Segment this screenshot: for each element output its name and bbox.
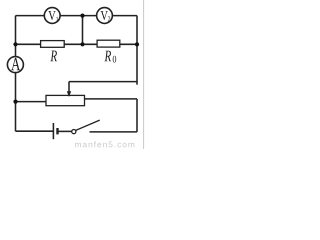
watermark manfen5.com <box>75 143 81 148</box>
junction node middle-second-rail <box>80 42 84 46</box>
resistor R <box>41 41 65 48</box>
page border faint line <box>143 0 145 149</box>
wire right vertical lower <box>136 99 138 132</box>
junction node rheostat-left <box>13 100 17 104</box>
resistor R0 <box>97 40 120 47</box>
label R <box>50 51 57 62</box>
wire bottom rail right <box>90 131 138 133</box>
rheostat (slide) box <box>46 95 85 105</box>
ammeter A <box>7 57 23 73</box>
junction node middle-top <box>80 14 84 18</box>
wire rheostat left <box>16 101 47 103</box>
wire bottom rail left <box>16 130 54 132</box>
wire left vertical <box>15 16 17 132</box>
battery cell <box>53 123 57 139</box>
label R0 <box>104 51 116 63</box>
switch S <box>72 120 100 134</box>
wire rheostat right <box>84 98 137 100</box>
wire right vertical upper <box>136 16 138 85</box>
rheostat wiper arrow <box>67 82 71 97</box>
junction node left-second-rail <box>13 42 17 46</box>
voltmeter V2 <box>97 8 113 24</box>
wire battery to switch <box>58 130 71 132</box>
wire middle vertical <box>82 16 84 45</box>
voltmeter V1 <box>44 8 60 24</box>
junction node right-second-rail <box>135 42 139 46</box>
wire top rail <box>16 15 138 17</box>
wire second rail <box>16 43 138 45</box>
wire wiper horizontal <box>69 81 137 83</box>
